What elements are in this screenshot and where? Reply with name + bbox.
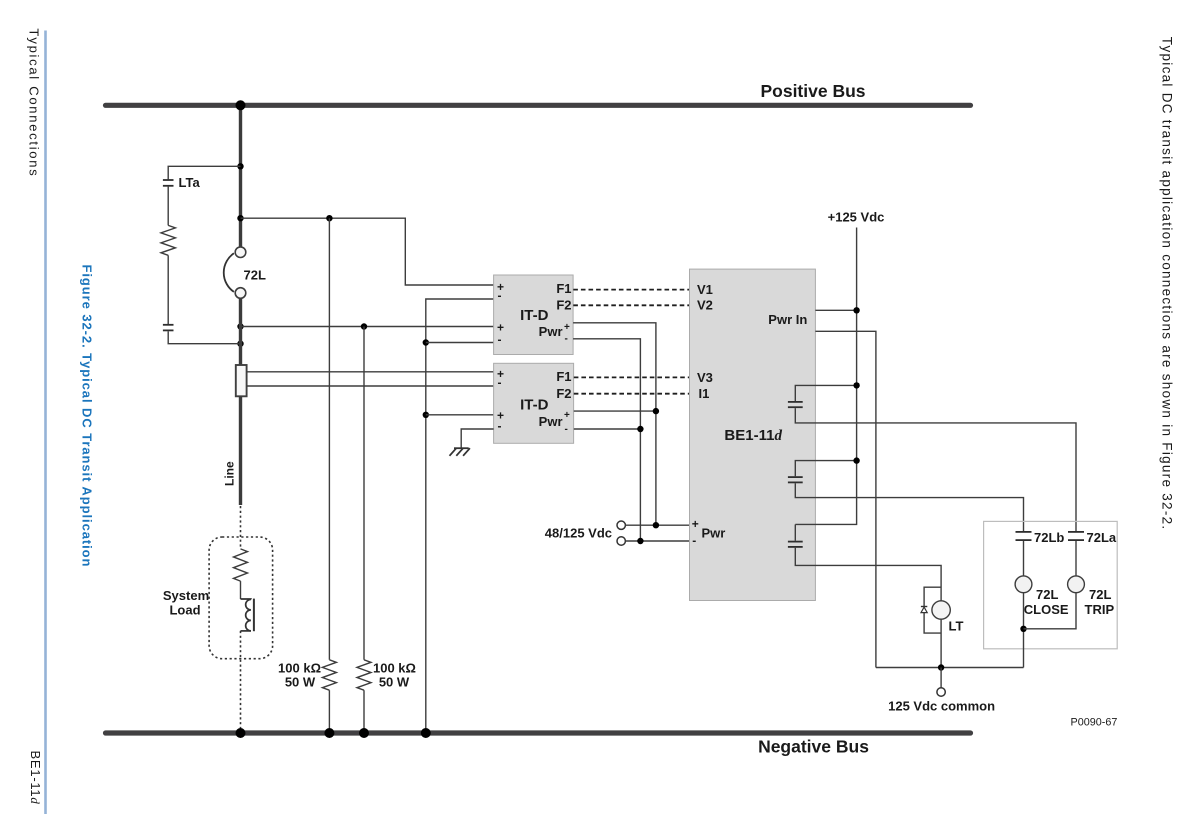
- svg-text:+125 Vdc: +125 Vdc: [828, 210, 885, 225]
- wire E: IT-D 1 pin - down to negative bus: [426, 299, 494, 733]
- resistor 100 kOhm 50 W (right): [357, 660, 371, 690]
- node at negative bus: [421, 728, 431, 738]
- output contact group 3 (to LT): [794, 524, 796, 540]
- svg-text:-: -: [565, 424, 568, 435]
- capacitor (LTa branch bottom) plates: [163, 324, 174, 326]
- wire: IT-D 2 Pwr+ branch: [574, 410, 656, 412]
- wire Pwr In lower down to common rail: [815, 331, 876, 667]
- resistor in system load: [234, 549, 248, 581]
- contact 72La: [1068, 531, 1084, 533]
- system load dashed enclosure: [209, 537, 273, 659]
- svg-text:Load: Load: [169, 603, 200, 618]
- wire: IT-D 1 Pwr- chain down to relay Pwr-: [573, 339, 640, 541]
- svg-text:Typical Connections: Typical Connections: [27, 28, 42, 177]
- svg-text:V1: V1: [697, 282, 713, 297]
- resistor in LTa branch: [161, 225, 175, 255]
- wire to common terminal: [940, 668, 942, 688]
- main feeder vertical wire (lower section): [239, 396, 242, 505]
- svg-text:BE1-11d: BE1-11d: [724, 427, 782, 444]
- svg-text:F1: F1: [556, 369, 571, 384]
- supply terminal +: [617, 521, 625, 529]
- node: [653, 408, 659, 414]
- wire: [168, 331, 240, 344]
- breaker 72L top contact: [235, 247, 246, 258]
- svg-text:V2: V2: [697, 297, 713, 312]
- coil 72L TRIP: [1068, 576, 1085, 593]
- node: [637, 426, 643, 432]
- wire A: feeder to IT-D 1 pin +: [241, 218, 494, 285]
- common rail wire: [876, 667, 1024, 669]
- main feeder vertical wire (top section): [239, 105, 242, 247]
- svg-text:Positive Bus: Positive Bus: [760, 81, 865, 101]
- node at negative bus: [236, 728, 246, 738]
- wire: [328, 690, 330, 733]
- svg-text:-: -: [498, 289, 502, 303]
- wire Pwr In upper: [815, 309, 856, 311]
- node on wire A: [326, 215, 332, 221]
- svg-text:100 kΩ: 100 kΩ: [373, 661, 416, 676]
- svg-text:LT: LT: [949, 619, 964, 634]
- svg-text:50 W: 50 W: [285, 675, 316, 690]
- svg-text:BE1-11d: BE1-11d: [28, 751, 43, 805]
- dashed wire F1 to V1: [573, 289, 689, 291]
- positive bus: [106, 103, 971, 108]
- wire 72La to trip coil: [1075, 541, 1077, 576]
- wire F to IT-D 1 pin - (Pwr): [426, 342, 494, 344]
- svg-text:Figure 32-2. Typical DC Transi: Figure 32-2. Typical DC Transit Applicat…: [80, 265, 95, 568]
- svg-text:-: -: [498, 376, 502, 390]
- node: [1020, 626, 1026, 632]
- relay BE1-11d box: [690, 269, 816, 600]
- wire: [363, 690, 365, 733]
- shunt sense wire upper to IT-D 2: [247, 371, 494, 373]
- svg-text:TRIP: TRIP: [1085, 602, 1115, 617]
- svg-text:Typical DC transit application: Typical DC transit application connectio…: [1160, 37, 1175, 531]
- svg-text:72L: 72L: [244, 268, 266, 283]
- dashed wire F2 to I1: [574, 393, 690, 395]
- node: bus tap: [236, 100, 246, 110]
- lamp LT: [932, 601, 950, 619]
- dashed wire F1 to V3: [574, 376, 690, 378]
- svg-text:+: +: [564, 322, 570, 333]
- svg-text:50 W: 50 W: [379, 675, 410, 690]
- svg-text:Pwr: Pwr: [702, 526, 726, 541]
- left margin blue rule: [44, 31, 47, 815]
- svg-text:LTa: LTa: [179, 175, 201, 190]
- svg-text:48/125 Vdc: 48/125 Vdc: [545, 526, 612, 541]
- node wire G tap: [423, 412, 429, 418]
- wire terminal- to relay Pwr-: [625, 540, 689, 542]
- LTa branch wires: [168, 166, 240, 179]
- breaker 72L bottom contact: [235, 288, 246, 299]
- ground symbol: [450, 448, 470, 456]
- diode: [921, 606, 927, 608]
- svg-text:72L: 72L: [1089, 587, 1111, 602]
- svg-text:+: +: [692, 517, 699, 531]
- svg-text:72Lb: 72Lb: [1034, 530, 1064, 545]
- breaker control panel box: [984, 521, 1118, 648]
- wire G to IT-D 2 pin + (Pwr): [426, 414, 494, 416]
- node on wire C: [361, 323, 367, 329]
- node wire F tap: [423, 339, 429, 345]
- node: [853, 307, 859, 313]
- svg-text:100 kΩ: 100 kΩ: [278, 661, 321, 676]
- svg-text:-: -: [692, 533, 696, 547]
- wire close coil to common: [1023, 593, 1025, 668]
- capacitor LTa plates: [163, 179, 174, 181]
- wire: [240, 581, 242, 599]
- node: wire A tap: [237, 215, 243, 221]
- svg-text:125 Vdc common: 125 Vdc common: [888, 699, 995, 714]
- inductor in system load: [241, 599, 254, 632]
- resistor 100 kOhm 50 W (left): [322, 660, 336, 690]
- wire: [167, 255, 169, 324]
- 125 Vdc common terminal: [937, 688, 945, 696]
- negative bus: [106, 730, 971, 735]
- transducer IT-D 2 box: [494, 363, 574, 443]
- svg-text:+: +: [564, 410, 570, 421]
- wire terminal+ to relay Pwr+: [625, 524, 689, 526]
- svg-text:-: -: [565, 334, 568, 345]
- svg-text:P0090-67: P0090-67: [1071, 717, 1118, 729]
- wire lamp bottom to common rail: [940, 619, 942, 667]
- node: LTa bottom tap: [237, 341, 243, 347]
- svg-text:Pwr: Pwr: [539, 414, 563, 429]
- wire 72Lb to close coil: [1023, 541, 1025, 576]
- svg-text:F1: F1: [556, 281, 571, 296]
- wire: [167, 187, 169, 226]
- node: wire C tap: [237, 323, 243, 329]
- svg-text:CLOSE: CLOSE: [1024, 602, 1069, 617]
- svg-text:-: -: [498, 419, 502, 433]
- svg-text:F2: F2: [556, 386, 571, 401]
- node: [653, 522, 659, 528]
- divider resistor wire (left): [328, 218, 330, 660]
- breaker 72L arc: [224, 253, 234, 292]
- svg-text:Line: Line: [222, 461, 236, 486]
- contact 72Lb: [1016, 531, 1032, 533]
- svg-text:F2: F2: [556, 298, 571, 313]
- output contact group 2 (to 72Lb): [795, 461, 856, 477]
- node at negative bus: [324, 728, 334, 738]
- svg-text:-: -: [498, 332, 502, 346]
- svg-text:72L: 72L: [1036, 587, 1058, 602]
- ground wire from IT-D 2 pin -: [461, 429, 493, 448]
- main feeder vertical wire (middle section): [239, 298, 242, 365]
- wire C: feeder to IT-D 1 pin + (Pwr): [241, 326, 494, 328]
- dashed wire F2 to V2: [573, 304, 689, 306]
- node: [938, 664, 944, 670]
- fuse / shunt on feeder: [236, 365, 247, 396]
- dotted feeder to system load: [240, 506, 242, 549]
- svg-text:Negative Bus: Negative Bus: [758, 737, 869, 757]
- shunt sense wire lower to IT-D 2: [247, 385, 494, 387]
- svg-text:System: System: [163, 588, 209, 603]
- node at negative bus: [359, 728, 369, 738]
- svg-text:Pwr In: Pwr In: [768, 312, 807, 327]
- output contact group 1 (to 72La): [795, 385, 856, 401]
- wire coil bottoms link: [1024, 593, 1077, 629]
- svg-text:72La: 72La: [1087, 530, 1117, 545]
- svg-text:V3: V3: [697, 370, 713, 385]
- dotted wire to negative bus: [240, 631, 242, 731]
- transducer IT-D 1 box: [494, 275, 573, 355]
- supply terminal -: [617, 537, 625, 545]
- wire: IT-D 1 Pwr+ chain down to relay Pwr+: [573, 323, 656, 525]
- divider resistor wire (right): [363, 327, 365, 660]
- svg-text:I1: I1: [699, 386, 710, 401]
- +125 Vdc vertical wire: [795, 228, 856, 525]
- wire: IT-D 2 Pwr- branch: [574, 428, 641, 430]
- svg-text:Pwr: Pwr: [539, 324, 563, 339]
- svg-text:IT-D: IT-D: [520, 397, 548, 414]
- node: [637, 538, 643, 544]
- coil 72L CLOSE: [1015, 576, 1032, 593]
- LT lamp parallel diode bracket: [924, 587, 941, 606]
- svg-text:IT-D: IT-D: [520, 307, 548, 324]
- node: LTa top tap: [237, 163, 243, 169]
